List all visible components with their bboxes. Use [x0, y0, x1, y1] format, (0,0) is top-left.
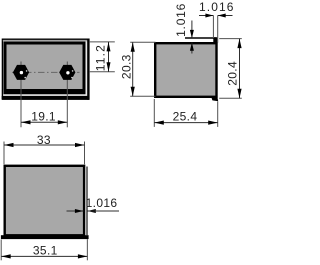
svg-text:1.016: 1.016 [86, 196, 118, 210]
svg-text:20.4: 20.4 [225, 61, 239, 86]
svg-text:33: 33 [37, 133, 51, 147]
svg-text:25.4: 25.4 [173, 110, 198, 124]
svg-text:35.1: 35.1 [33, 244, 58, 258]
svg-text:1.016: 1.016 [199, 0, 235, 14]
svg-text:19.1: 19.1 [31, 109, 56, 123]
svg-text:1.016: 1.016 [174, 3, 188, 37]
svg-text:11.2: 11.2 [94, 44, 108, 71]
svg-text:20.3: 20.3 [120, 54, 134, 79]
